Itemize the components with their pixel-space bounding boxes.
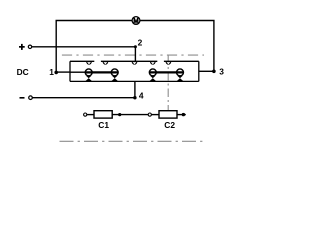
vibrator box S1: right edge	[198, 61, 200, 81]
terminal circle before C2	[148, 113, 151, 116]
svg-text:DC: DC	[17, 67, 29, 77]
wire: box to node 3	[199, 70, 214, 72]
vibrator box S1: top edge segment C	[164, 60, 199, 62]
wire: top bus left segment	[56, 21, 132, 73]
pedestal under K2	[112, 76, 118, 81]
end junction dot after C2	[182, 113, 185, 116]
fixed contact arc a3 (node 2)	[132, 61, 138, 64]
wire: minus feed to node 4	[32, 81, 135, 97]
junction dot between C1 and C2	[118, 113, 121, 116]
pedestal under K3	[150, 76, 156, 81]
minus terminal symbol	[20, 96, 33, 100]
svg-text:C2: C2	[164, 120, 175, 130]
node 4 junction dot	[133, 96, 136, 99]
bottom centre line (dash-dot)	[60, 140, 206, 142]
svg-text:C1: C1	[98, 120, 109, 130]
wire: C1 to C2	[112, 114, 148, 116]
plus terminal symbol	[19, 44, 32, 50]
svg-text:2: 2	[138, 38, 143, 48]
fixed contact arc a4	[150, 61, 156, 64]
wire: box edge to contact K1	[70, 71, 86, 73]
vibrator box S1: top edge segment B	[101, 60, 157, 62]
node 3 junction dot	[212, 70, 216, 74]
wire: node 1 into switch box	[56, 71, 70, 73]
contact bridge bar K3-K4	[150, 71, 184, 73]
node 1 junction dot	[54, 71, 58, 75]
fixed contact arc a2	[103, 61, 109, 64]
wire: terminal to C1	[87, 114, 94, 116]
vibrator box S1: left edge	[69, 61, 71, 81]
svg-text:4: 4	[139, 91, 144, 101]
pedestal under K4	[177, 76, 183, 81]
node 2 junction dot	[134, 45, 137, 48]
contact bridge bar K1-K2	[86, 71, 119, 73]
fixed contact arc a5	[166, 61, 172, 64]
centre line horizontal (dash-dot)	[62, 54, 204, 56]
contact circle K3	[149, 69, 156, 76]
meter U1 (M)	[132, 17, 140, 25]
wire: C2 to end dot	[177, 114, 186, 116]
wire: terminal to C2	[151, 114, 159, 116]
vibrator box S1: top edge segment A	[70, 60, 94, 62]
capacitor C1 body	[94, 111, 112, 118]
terminal circle before C1	[84, 113, 87, 116]
centre line vertical to C2 (dash-dot)	[167, 56, 169, 111]
wire: top bus right segment	[140, 21, 214, 72]
capacitor C2 body	[159, 111, 177, 118]
moving contact circles (white fill under bars)	[85, 69, 183, 76]
svg-text:1: 1	[49, 67, 54, 77]
pedestal under K1	[86, 76, 92, 81]
svg-text:3: 3	[219, 67, 224, 77]
wire: plus feed to node 2	[32, 47, 136, 62]
vibrator box S1: bottom edge	[70, 80, 199, 82]
contact circle K1	[85, 69, 92, 76]
contact circle K2	[111, 69, 118, 76]
contact circle K4	[177, 69, 184, 76]
fixed contact arc a1	[86, 61, 92, 64]
